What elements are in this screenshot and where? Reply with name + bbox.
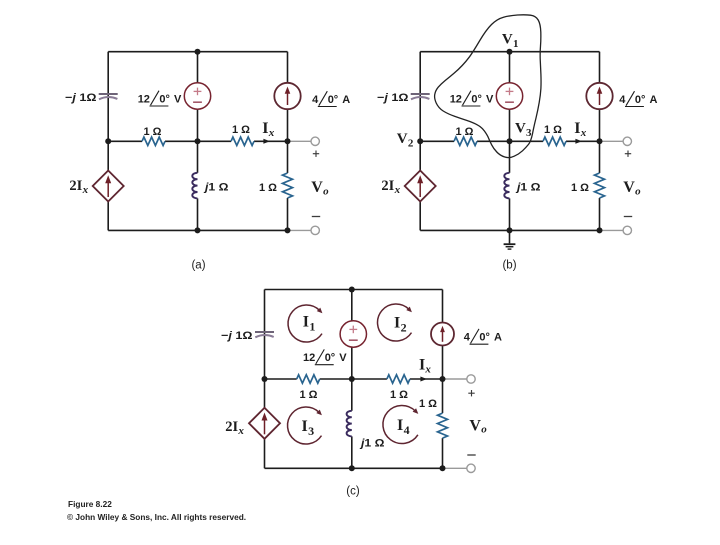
- node junction bottom-right (c): [440, 465, 446, 471]
- resistor 1ohm left (b): [454, 137, 477, 145]
- wire (a) gray lead to - output terminal: [288, 229, 312, 231]
- wire (b) gray lead to - output terminal: [600, 229, 624, 231]
- capacitor -j1ohm (b): [411, 93, 430, 95]
- node junction middle-left (c): [262, 376, 268, 382]
- wire (c) center branch above source: [351, 290, 353, 321]
- wire (a) right branch middle to resistor: [287, 141, 289, 173]
- mesh current loop I2 (c): [378, 304, 412, 341]
- terminal - (a): [311, 226, 319, 234]
- wire (a) right branch above current source: [287, 52, 289, 83]
- label - output (b): [624, 216, 632, 218]
- node junction middle-right (a): [285, 138, 291, 144]
- wire (a) middle rail segment 1: [108, 140, 142, 142]
- wire (c) right branch above current source: [442, 290, 444, 323]
- svg-text:0°: 0°: [635, 94, 646, 106]
- wire (b) gray lead to + output terminal: [600, 140, 624, 142]
- wire (c) center branch middle to inductor: [351, 379, 353, 411]
- wire (b) middle rail segment 1: [420, 140, 454, 142]
- node junction bottom-right (a): [285, 227, 291, 233]
- svg-text:1 Ω: 1 Ω: [144, 126, 162, 138]
- wire (a) center branch source to middle: [197, 109, 199, 141]
- svg-text:0°: 0°: [325, 352, 336, 364]
- resistor 1ohm output (a): [283, 173, 293, 198]
- svg-text:0°: 0°: [159, 93, 170, 105]
- svg-text:0°: 0°: [328, 94, 339, 106]
- svg-text:−j 1Ω: −j 1Ω: [65, 92, 97, 104]
- wire (c) middle rail segment 2: [320, 378, 387, 380]
- wire (b) center branch above source: [509, 52, 511, 83]
- wire (c) middle rail segment 1: [265, 378, 297, 380]
- resistor 1ohm output (c): [438, 413, 448, 438]
- mesh current loop I3 (c): [288, 407, 322, 444]
- resistor 1ohm right (b): [543, 137, 566, 145]
- label - output (a): [312, 216, 320, 218]
- mesh current loop I1 (c): [288, 305, 322, 342]
- wire (a) middle rail segment 2: [165, 140, 231, 142]
- wire (c) gray lead to + output terminal: [443, 378, 468, 380]
- svg-text:V: V: [486, 93, 494, 105]
- wire (b) right branch middle to resistor: [599, 141, 601, 173]
- wire (c) bottom rail: [265, 467, 443, 469]
- node junction V2 middle-left (b): [417, 138, 423, 144]
- wire (c) center branch source to middle: [351, 347, 353, 379]
- wire (b) top rail: [420, 51, 599, 53]
- terminal - (c): [467, 464, 475, 472]
- svg-text:1 Ω: 1 Ω: [300, 389, 318, 401]
- supernode boundary loop (b): [435, 15, 541, 158]
- svg-text:12: 12: [450, 93, 462, 105]
- wire (a) top rail: [108, 51, 287, 53]
- svg-text:V: V: [339, 352, 347, 364]
- current arrow Ix (b): [575, 139, 582, 144]
- node junction middle-right (b): [597, 138, 603, 144]
- dependent source 2Ix (a): [93, 171, 124, 202]
- svg-text:V: V: [174, 93, 182, 105]
- svg-text:1 Ω: 1 Ω: [259, 182, 277, 194]
- svg-text:j1 Ω: j1 Ω: [203, 182, 229, 194]
- wire (a) center branch inductor to bottom: [197, 198, 199, 230]
- svg-text:A: A: [342, 94, 350, 106]
- current source 4A (b): [586, 83, 612, 109]
- ground symbol (b): [509, 230, 511, 243]
- wire (b) bottom rail: [420, 229, 599, 231]
- wire (a) middle rail segment 3: [254, 140, 288, 142]
- wire (b) left branch upper: [419, 52, 421, 171]
- wire (c) left branch upper: [264, 290, 266, 408]
- node junction middle-center (a): [195, 138, 201, 144]
- wire (a) left branch upper: [107, 52, 109, 171]
- current arrow Ix (a): [263, 139, 270, 144]
- wire (a) bottom rail: [108, 229, 287, 231]
- svg-text:12: 12: [138, 93, 150, 105]
- svg-text:1 Ω: 1 Ω: [232, 124, 250, 136]
- svg-text:1 Ω: 1 Ω: [419, 398, 437, 410]
- current arrow Ix (c): [420, 377, 427, 382]
- wire (a) gray lead to + output terminal: [288, 140, 312, 142]
- wire (a) right branch source to middle: [287, 109, 289, 141]
- wire (a) center branch middle to inductor: [197, 141, 199, 173]
- capacitor -j1ohm (a): [99, 93, 118, 95]
- inductor j1ohm (a): [192, 173, 197, 199]
- current source 4A (c): [431, 323, 454, 346]
- wire (c) middle rail segment 3: [410, 378, 443, 380]
- voltage source 12V (c): [340, 321, 366, 347]
- svg-text:A: A: [650, 94, 658, 106]
- svg-text:(c): (c): [346, 486, 360, 498]
- node junction top-center (a): [195, 49, 201, 55]
- svg-text:1 Ω: 1 Ω: [544, 124, 562, 136]
- svg-text:4: 4: [464, 332, 471, 344]
- svg-text:Figure 8.22: Figure 8.22: [68, 499, 112, 509]
- wire (a) center branch above source: [197, 52, 199, 83]
- wire (b) middle rail segment 3: [566, 140, 600, 142]
- wire (c) right branch resistor to bottom: [442, 438, 444, 468]
- voltage source 12V (b): [496, 83, 522, 109]
- svg-text:1 Ω: 1 Ω: [456, 126, 474, 138]
- svg-text:−j 1Ω: −j 1Ω: [377, 92, 409, 104]
- resistor 1ohm left (a): [142, 137, 165, 145]
- wire (a) left branch lower: [107, 202, 109, 231]
- svg-text:4: 4: [312, 94, 319, 106]
- node junction middle-center (c): [349, 376, 355, 382]
- wire (b) center branch middle to inductor: [509, 141, 511, 173]
- svg-text:j1 Ω: j1 Ω: [359, 438, 385, 450]
- wire (b) center branch source to middle: [509, 109, 511, 141]
- wire (c) right branch middle to resistor: [442, 379, 444, 413]
- terminal + (b): [623, 137, 631, 145]
- svg-text:4: 4: [619, 94, 626, 106]
- node junction middle-left (a): [105, 138, 111, 144]
- node junction V1 top-center (b): [507, 49, 513, 55]
- resistor 1ohm left (c): [297, 375, 320, 383]
- voltage source 12V (a): [184, 83, 210, 109]
- svg-text:0°: 0°: [479, 332, 490, 344]
- svg-text:(a): (a): [191, 259, 205, 271]
- svg-text:A: A: [494, 332, 502, 344]
- label + output (b): [625, 153, 631, 155]
- inductor j1ohm (b): [504, 173, 509, 199]
- node junction bottom-center ground (b): [507, 227, 513, 233]
- label + output (c): [468, 392, 474, 394]
- label + output (a): [313, 153, 319, 155]
- wire (c) top rail: [265, 289, 443, 291]
- svg-text:−j 1Ω: −j 1Ω: [221, 330, 253, 342]
- node junction bottom-center (c): [349, 465, 355, 471]
- wire (c) right branch source to middle: [442, 346, 444, 380]
- wire (c) gray lead to - output terminal: [443, 467, 468, 469]
- inductor j1ohm (c): [347, 411, 352, 437]
- dependent source 2Ix (c): [249, 408, 280, 439]
- wire (c) left branch lower: [264, 439, 266, 469]
- terminal + (a): [311, 137, 319, 145]
- resistor 1ohm right (c): [387, 375, 410, 383]
- resistor 1ohm output (b): [595, 173, 605, 198]
- resistor 1ohm right (a): [231, 137, 254, 145]
- svg-text:j1 Ω: j1 Ω: [515, 182, 541, 194]
- wire (b) right branch resistor to bottom: [599, 198, 601, 230]
- node junction bottom-center (a): [195, 227, 201, 233]
- svg-text:1 Ω: 1 Ω: [571, 182, 589, 194]
- terminal + (c): [467, 375, 475, 383]
- node junction middle-right (c): [440, 376, 446, 382]
- terminal - (b): [623, 226, 631, 234]
- svg-text:© John Wiley & Sons, Inc. All: © John Wiley & Sons, Inc. All rights res…: [67, 512, 246, 522]
- svg-text:(b): (b): [502, 259, 516, 271]
- dependent source 2Ix (b): [405, 171, 436, 202]
- wire (b) right branch source to middle: [599, 109, 601, 141]
- wire (b) left branch lower: [419, 202, 421, 231]
- svg-text:0°: 0°: [471, 93, 482, 105]
- node junction V3 middle-center (b): [507, 138, 513, 144]
- capacitor -j1ohm (c): [255, 331, 274, 333]
- wire (b) right branch above current source: [599, 52, 601, 83]
- svg-text:1 Ω: 1 Ω: [390, 389, 408, 401]
- wire (c) center branch inductor to bottom: [351, 436, 353, 468]
- label - output (c): [467, 454, 475, 456]
- node junction top-center (c): [349, 287, 355, 293]
- wire (b) center branch inductor to bottom: [509, 198, 511, 230]
- mesh current loop I4 (c): [383, 406, 418, 444]
- wire (a) right branch resistor to bottom: [287, 198, 289, 230]
- svg-text:12: 12: [303, 352, 315, 364]
- current source 4A (a): [274, 83, 300, 109]
- wire (b) middle rail segment 2: [477, 140, 543, 142]
- node junction bottom-right (b): [597, 227, 603, 233]
